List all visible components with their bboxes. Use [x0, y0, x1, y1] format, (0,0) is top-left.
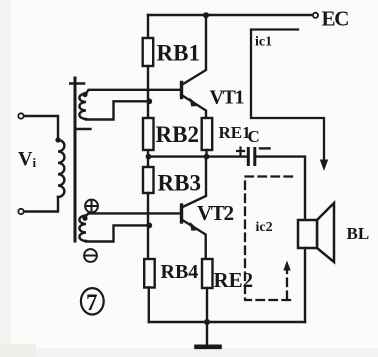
wire VT2 base line: [86, 213, 180, 215]
resistor RB1: [143, 38, 154, 66]
wire ic1 arrow: [320, 160, 328, 172]
wire RB3 to RB4: [147, 193, 149, 259]
node secondary1 polarity dot: [82, 92, 87, 97]
label - (secondary1): [77, 128, 91, 130]
wire RE2 to bottom rail: [206, 288, 208, 322]
inductor primary winding: [58, 140, 64, 197]
wire secondary2 lower lead (step): [86, 225, 148, 241]
label + (capacitor): [237, 148, 244, 155]
wire RB2 to RB3: [147, 150, 149, 167]
label circled plus: [85, 200, 98, 213]
wire bottom rail: [149, 321, 305, 323]
resistor RE1: [202, 118, 213, 150]
node junction bias/secondary1: [146, 98, 152, 104]
wire ic2 arrow: [283, 261, 290, 271]
label - (capacitor): [260, 147, 270, 149]
svg-text:RB3: RB3: [158, 171, 201, 196]
wire coupling line right: [256, 157, 305, 220]
resistor RB3: [143, 167, 154, 193]
node junction top rail / VT1 collector: [203, 12, 209, 18]
svg-text:EC: EC: [322, 7, 349, 31]
wire RB4 to bottom rail: [148, 288, 150, 323]
svg-text:BL: BL: [347, 224, 370, 243]
svg-text:RB4: RB4: [161, 261, 199, 283]
inductor secondary 1: [79, 94, 86, 120]
transformer primary terminal bottom: [18, 209, 23, 214]
svg-text:VT1: VT1: [210, 87, 244, 109]
wire top rail: [148, 14, 312, 16]
svg-text:VT2: VT2: [197, 201, 234, 225]
svg-text:RB1: RB1: [157, 41, 200, 66]
wire VT1 base line: [86, 90, 180, 94]
label circled minus: [84, 249, 97, 262]
wire ic1 loop: [251, 30, 324, 164]
wire secondary1 lower lead (step): [86, 101, 148, 119]
ground: [206, 322, 208, 345]
capacitor C: [247, 147, 256, 166]
transformer core: [74, 78, 77, 241]
node primary polarity dot: [55, 137, 60, 142]
symbol circled 7: [81, 288, 104, 314]
svg-text:7: 7: [86, 290, 98, 315]
wire speaker to bottom rail: [304, 248, 306, 322]
wire rail to RB1: [147, 15, 149, 38]
node secondary2 polarity dot: [82, 216, 87, 221]
label + (top): [70, 82, 84, 85]
node junction emitter/coupling: [204, 154, 210, 160]
wire coupling line left: [149, 155, 248, 157]
node junction RB2/RB3/coupling line: [146, 154, 152, 160]
wire RB1 to RB2: [147, 66, 149, 118]
speaker BL: [298, 203, 334, 262]
svg-text:C: C: [248, 127, 260, 146]
node junction ground: [204, 319, 210, 325]
inductor secondary 2: [79, 216, 86, 242]
resistor RB2: [143, 118, 154, 150]
transformer primary terminal top: [18, 113, 23, 118]
terminal EC: [313, 13, 318, 18]
svg-text:RE1: RE1: [219, 123, 251, 142]
svg-text:ic1: ic1: [255, 35, 272, 50]
svg-text:RE2: RE2: [214, 268, 254, 292]
wire RE1 to node: [205, 150, 207, 157]
resistor RE2: [202, 259, 213, 288]
wire ic2 dashed loop: [245, 177, 292, 301]
svg-text:ic2: ic2: [256, 220, 273, 235]
wire primary top lead: [24, 116, 58, 138]
resistor RB4: [144, 259, 155, 288]
node junction bias/secondary2: [146, 223, 152, 229]
transistor VT2: [182, 159, 207, 259]
transistor VT1: [182, 15, 207, 118]
wire primary bottom lead: [24, 197, 58, 212]
svg-text:RB2: RB2: [156, 122, 199, 147]
